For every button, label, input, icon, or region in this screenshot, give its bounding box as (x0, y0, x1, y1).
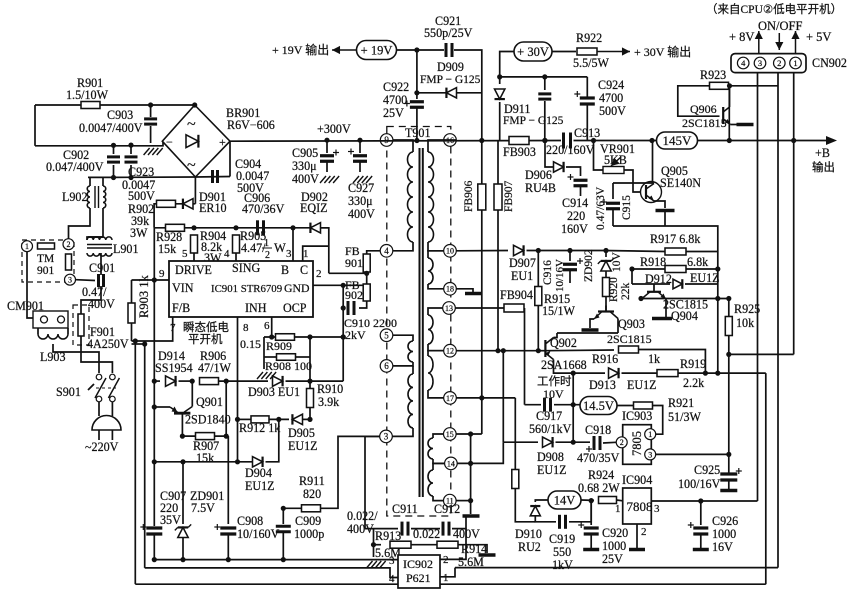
svg-text:10: 10 (446, 247, 454, 256)
label F901 value (87, 337, 129, 351)
IC903 pin 1 (645, 429, 656, 440)
svg-text:R910: R910 (317, 382, 343, 396)
svg-text:17: 17 (446, 394, 454, 403)
svg-text:1: 1 (303, 248, 309, 260)
svg-text:R912 1k: R912 1k (239, 421, 281, 435)
resistor R907 (196, 433, 215, 440)
svg-text:+ 8V: + 8V (729, 30, 754, 44)
svg-text:2SC1815: 2SC1815 (682, 116, 727, 130)
switch link dashes (96, 387, 116, 389)
svg-text:470/36V: 470/36V (242, 202, 285, 216)
capacitor C926 (688, 522, 709, 534)
svg-text:C901: C901 (89, 261, 115, 275)
resistor R914 (437, 541, 458, 548)
wire C917 line (525, 404, 542, 406)
svg-text:IC904: IC904 (622, 473, 652, 487)
wire 226 rail (613, 226, 718, 373)
svg-text:RU2: RU2 (518, 540, 541, 554)
label C924 (598, 78, 624, 92)
node C903 top (148, 102, 153, 107)
wire L901 ends (87, 237, 103, 240)
svg-text:SE140N: SE140N (660, 176, 701, 190)
fuse F901 (78, 314, 84, 336)
inductor L903 (38, 334, 68, 339)
ferrite bead FB905 (512, 470, 519, 489)
wire R915 line (537, 251, 539, 351)
capacitor C927 (348, 149, 367, 162)
label R913 value (375, 546, 401, 560)
label L901 (113, 242, 139, 256)
Q904 emitter ground bar (652, 317, 672, 321)
wire outer loop left (134, 341, 136, 584)
wire L902 left top (89, 177, 91, 186)
wire R908 left stub (264, 356, 277, 358)
label R928 value (158, 242, 177, 256)
svg-text:C924: C924 (598, 78, 624, 92)
label IC902 (403, 557, 433, 571)
IC902 pin1 (443, 572, 449, 584)
wire F901 stub2 (80, 336, 82, 345)
label C917 (536, 409, 562, 423)
svg-text:2200: 2200 (373, 316, 397, 330)
svg-text:550: 550 (553, 545, 571, 559)
svg-text:GND: GND (284, 281, 310, 295)
node VIN (152, 277, 157, 282)
svg-text:C925: C925 (694, 463, 720, 477)
label C904 (235, 157, 261, 171)
label +5V (806, 30, 831, 44)
label C920 (602, 526, 628, 540)
IC903 pin 2 (616, 437, 627, 448)
svg-text:C908: C908 (237, 514, 263, 528)
label C920 value2 (602, 552, 623, 566)
svg-text:+ 30V: + 30V (517, 45, 549, 59)
svg-text:+ 30V 输出: + 30V 输出 (634, 44, 691, 59)
svg-text:ZD902: ZD902 (583, 249, 595, 282)
wire pin12 R916 line (456, 350, 538, 352)
svg-text:D903 EU1: D903 EU1 (248, 385, 300, 399)
wire C904 line (195, 176, 230, 179)
wire to pin17 (428, 390, 444, 398)
label ON/OFF (758, 19, 803, 33)
resistor R917 (665, 248, 686, 255)
wire +B rail (697, 140, 829, 142)
wire third rail (114, 176, 196, 178)
label C927 (348, 181, 374, 195)
label C911 (392, 502, 418, 516)
svg-text:1.5/10W: 1.5/10W (66, 88, 109, 102)
ground below C927 (353, 176, 372, 183)
label FB901b (345, 256, 363, 270)
label R915 (544, 292, 570, 306)
wire R918 right (686, 268, 718, 270)
label Q902 type (541, 358, 587, 372)
label R911 (299, 474, 325, 488)
wire pin11 line (456, 500, 471, 502)
svg-text:R918: R918 (640, 255, 666, 269)
label C905 (292, 146, 318, 160)
svg-text:4: 4 (389, 573, 395, 585)
transistor Q901 collector (184, 407, 192, 413)
transistor Q902 base bar (544, 340, 546, 357)
pin 5 (182, 248, 188, 260)
wire C904 up (229, 141, 231, 176)
svg-text:6: 6 (384, 361, 389, 371)
node C916 top (567, 248, 572, 253)
node Q906 collector junction (727, 83, 732, 88)
svg-text:C911: C911 (392, 502, 418, 516)
wire D911 bottom (499, 102, 501, 141)
wire FB904 drop (524, 308, 526, 405)
svg-text:51/3W: 51/3W (668, 410, 702, 424)
node bottom rail (152, 557, 286, 562)
capacitor C910 (348, 301, 354, 315)
resistor R905 (233, 235, 240, 253)
wire rail down to VIN (153, 228, 155, 280)
svg-text:330μ: 330μ (348, 194, 373, 208)
svg-text:220: 220 (567, 209, 585, 223)
wire D906 branch (545, 141, 553, 168)
wire R912 line (238, 418, 252, 420)
wire 7808 out (651, 500, 757, 502)
wire C916 stub (569, 251, 571, 262)
switch S901 pole2 (108, 374, 119, 402)
svg-text:2SA1668: 2SA1668 (541, 358, 587, 372)
wire C921 right (454, 50, 482, 141)
L901 core (87, 245, 112, 249)
wire ZD902 stub (605, 251, 607, 258)
label C926 value (712, 527, 736, 541)
label C910 2200 (373, 316, 397, 330)
label R921 value (668, 410, 702, 424)
svg-text:145V: 145V (663, 133, 693, 148)
wire D907 out (527, 250, 605, 252)
label FB903 (503, 145, 536, 159)
wire C915 top (613, 182, 652, 184)
transistor Q905 emitter (646, 195, 654, 201)
label Q905 type (660, 176, 701, 190)
svg-text:C905: C905 (292, 146, 318, 160)
wire pin15 line (456, 433, 482, 435)
svg-text:15k: 15k (158, 242, 177, 256)
svg-text:15: 15 (446, 430, 454, 439)
wire bottom rail (154, 559, 398, 561)
label R920 22k vertical (620, 283, 632, 301)
transistor Q904 base bar (647, 291, 661, 293)
node R925 top junction (715, 296, 731, 301)
wire winding to pin4 (393, 242, 413, 251)
wire C908 bottom (227, 534, 229, 560)
label D906 (525, 168, 552, 182)
label Q901 (196, 395, 223, 409)
svg-text:EU1Z: EU1Z (537, 463, 567, 477)
T901 winding 14-11 (428, 470, 433, 496)
capacitor C917 (545, 398, 551, 412)
capacitor C918 (594, 436, 600, 450)
node C902 C923 taps (111, 143, 134, 148)
wire 19V to C921 (397, 49, 445, 51)
label IC904 (622, 473, 652, 487)
svg-text:14V: 14V (554, 493, 576, 507)
T901 winding 10-18 (428, 258, 433, 284)
IC904 box (623, 488, 652, 524)
svg-text:902: 902 (345, 288, 363, 302)
label R901 (77, 76, 103, 90)
node D911 top (497, 74, 502, 79)
zener ZD901 (175, 524, 191, 537)
capacitor C922 (404, 101, 424, 108)
wire between C911 C912 (411, 528, 440, 530)
label +30V out (634, 44, 691, 59)
label ZD902 vertical (583, 249, 595, 282)
svg-text:S901: S901 (56, 385, 81, 399)
capacitor C920 (578, 522, 599, 534)
IC901 B (281, 263, 289, 277)
svg-text:C909: C909 (295, 514, 321, 528)
node pin2 gnd (341, 283, 346, 288)
wire C905 stub (326, 140, 328, 153)
wire D909 line (417, 92, 482, 94)
label R923 (700, 68, 726, 82)
label TM901 (37, 253, 54, 265)
transformer T901 dashed box (387, 127, 451, 517)
label FB902a (345, 278, 360, 292)
svg-text:12: 12 (446, 347, 454, 356)
label 7805 vertical (630, 431, 644, 456)
wire to pin18 (428, 284, 444, 289)
wire D908 line (503, 441, 538, 443)
svg-text:1000: 1000 (602, 539, 626, 553)
label 0.15 R909 (240, 337, 261, 351)
T901 pin 3 (380, 430, 393, 443)
label C926 (712, 514, 738, 528)
label D908 type (537, 463, 567, 477)
svg-text:4700: 4700 (599, 91, 623, 105)
label C924 value2 (599, 104, 626, 118)
label TM901b (37, 265, 55, 277)
label C919 value (553, 545, 571, 559)
svg-text:2: 2 (265, 250, 270, 261)
pin 3 (286, 248, 292, 260)
resistor R918 (665, 266, 686, 273)
label C925 (694, 463, 720, 477)
svg-text:3: 3 (286, 248, 292, 260)
wire C925 bottom (728, 480, 730, 489)
wire C902 bottom (113, 165, 115, 178)
transistor Q903 emitter (594, 312, 602, 320)
Q906 emitter bar (737, 123, 754, 127)
svg-text:0.68 2W: 0.68 2W (578, 481, 620, 495)
svg-text:5: 5 (182, 248, 188, 260)
label D906 type (525, 181, 556, 195)
label C902 value (46, 160, 104, 174)
diode D914 (166, 376, 176, 386)
label FB906 vertical (463, 180, 475, 212)
resistor R924 (599, 497, 617, 504)
wire R920 bottom (605, 297, 607, 312)
capacitor C921 (446, 43, 452, 57)
wire C915 stub (612, 183, 614, 199)
svg-text:B: B (281, 263, 289, 277)
label IC903 (622, 409, 652, 423)
wire ladder left (263, 337, 265, 357)
wire R909 line (264, 336, 343, 338)
wire C916 bottom (569, 270, 571, 283)
label C923 value2 (122, 178, 155, 192)
wire R905 to pin4 (235, 253, 237, 261)
wire C919 right (569, 501, 591, 522)
node R907 ends (180, 434, 229, 439)
wire pin17 line (456, 397, 515, 399)
wire winding3 to pin3 (392, 428, 413, 436)
wire left rail vertical (34, 105, 36, 146)
TM901 pin 3 (65, 274, 76, 285)
ferrite bead FB904 (504, 304, 524, 312)
label C907 value (160, 501, 178, 515)
label C926 value2 (712, 540, 733, 554)
IC901 INH (245, 301, 267, 315)
wire D912 right (685, 283, 718, 285)
capacitor C915 (601, 199, 620, 209)
label ZD901 (190, 489, 224, 503)
wire L902 right top (102, 177, 104, 186)
label C909 value (294, 527, 324, 541)
label D905 (288, 426, 315, 440)
label R910 value (318, 395, 340, 409)
svg-text:550p/25V: 550p/25V (424, 26, 473, 40)
label D912 type (690, 271, 720, 285)
wire C924 rail (500, 76, 588, 78)
node rail crossings (727, 138, 797, 143)
node third rail (111, 175, 134, 180)
node R912 left (235, 417, 240, 422)
wire ladder right (309, 337, 311, 357)
label C919 (549, 532, 575, 546)
wire gnd stub (263, 357, 265, 369)
wire C907 top (153, 523, 155, 526)
label D909 (437, 60, 464, 74)
label C927 value (348, 194, 373, 208)
svg-text:EU1Z: EU1Z (288, 439, 318, 453)
node R904 top (191, 225, 196, 230)
wire D914 line (154, 380, 160, 382)
svg-text:820: 820 (303, 487, 321, 501)
label C902 (63, 148, 89, 162)
wire C923 bottom (130, 165, 132, 178)
node R925 bottom (726, 352, 731, 357)
svg-text:R911: R911 (299, 474, 325, 488)
label D912 (645, 272, 672, 286)
label Q903 (618, 317, 645, 331)
svg-text:R920: R920 (608, 277, 620, 302)
node Q904 collector (638, 296, 643, 301)
wire inner loop right (765, 373, 767, 584)
svg-text:901: 901 (345, 256, 363, 270)
label R906 value (198, 361, 232, 375)
wire Q904 base stub (653, 284, 655, 292)
label D901 type (199, 201, 227, 215)
capacitor C913 (564, 133, 571, 149)
wire Q906 emitter gnd (730, 124, 737, 126)
label C908 (237, 514, 263, 528)
label C922 value (383, 93, 407, 107)
arrow +19V out (332, 46, 357, 54)
node D914 left (152, 379, 157, 384)
svg-text:2: 2 (777, 58, 781, 68)
wire pin5 stub (393, 335, 413, 341)
resistor R919 (657, 370, 678, 377)
wire C905 gnd stub (326, 161, 328, 172)
wire pin6 drop (271, 317, 273, 337)
svg-text:2: 2 (641, 526, 647, 538)
transistor Q902 emitter (545, 351, 553, 360)
diode D901 (183, 199, 193, 209)
T901 pin 5 (380, 329, 393, 342)
svg-text:C916: C916 (542, 260, 554, 285)
svg-text:+ 19V: + 19V (361, 43, 393, 57)
net oval 14V (548, 491, 581, 509)
label R924 value (578, 481, 620, 495)
label R916 (592, 352, 618, 366)
label Q903 type (607, 332, 652, 346)
wire VR901 right (624, 170, 640, 192)
wire Q906 collector up (729, 86, 731, 107)
label R905 (240, 229, 266, 243)
wire 30V left (500, 52, 514, 85)
wire midcap bottom (544, 101, 546, 141)
T901 winding 5-6 (408, 341, 413, 362)
svg-text:5.5/5W: 5.5/5W (573, 56, 610, 70)
wire plug leads (98, 430, 100, 440)
node D905 left (276, 417, 281, 422)
label C912 (434, 502, 460, 516)
wire IC902 pin2 out (440, 529, 466, 560)
wire C924 bottom (586, 104, 588, 141)
label +B out (812, 160, 835, 174)
wire Q905 emitter down (654, 201, 665, 208)
label C909 (295, 514, 321, 528)
wire D913 line (573, 372, 605, 374)
inductor L902 left winding (87, 186, 90, 208)
label C917 value (529, 422, 572, 436)
T901 pin 16 (444, 134, 457, 147)
label 7808 (627, 499, 653, 514)
label Q904 type (663, 298, 708, 312)
wire C918 to pin2 (603, 441, 616, 444)
svg-text:R908 100: R908 100 (265, 359, 312, 373)
svg-text:901: 901 (37, 265, 55, 277)
wire F901 down to switch (81, 345, 112, 373)
label FB902b (345, 288, 363, 302)
label D907 (509, 256, 536, 270)
svg-text:C920: C920 (602, 526, 628, 540)
wire 14V left (535, 500, 548, 502)
node ZD901 top (180, 459, 185, 464)
wire F901 stubs (80, 307, 82, 314)
CN902 pin 1 (790, 57, 802, 69)
wire C922 bottom (416, 107, 418, 141)
wire FB907 line (497, 141, 499, 351)
svg-text:400V: 400V (292, 172, 319, 186)
wire Q902e to C917 node (572, 373, 574, 442)
node Q902 base node (536, 348, 541, 353)
IC901 C (300, 263, 308, 277)
label C913 (574, 126, 600, 140)
svg-text:4: 4 (224, 248, 230, 260)
wire pin9 to winding (393, 140, 413, 152)
wire top rail to bridge (35, 104, 195, 106)
svg-text:~: ~ (187, 157, 196, 174)
